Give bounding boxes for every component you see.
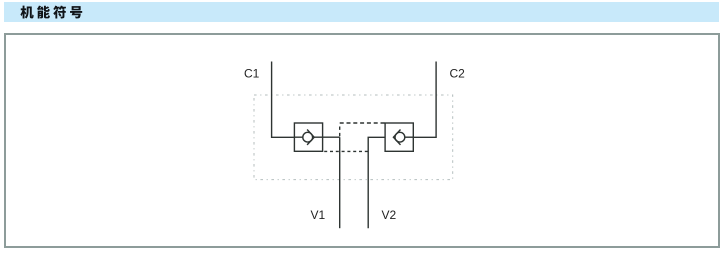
- check valve seat (right): [393, 130, 400, 145]
- title text 机能符号 (as paths): [20, 6, 82, 19]
- title glyph 机: [20, 6, 33, 19]
- title glyph 符: [53, 6, 66, 19]
- wire V1 port: [339, 137, 341, 228]
- pilot line (top dashed): [340, 122, 385, 124]
- check valve ball (right circle): [395, 132, 405, 142]
- check valve seat (left): [307, 130, 314, 145]
- wire V2 port: [368, 137, 385, 228]
- svg-text:C1: C1: [244, 67, 260, 81]
- valve envelope (outer dashed enclosure): [254, 95, 453, 180]
- svg-text:C2: C2: [450, 67, 466, 81]
- wire C1 port: [272, 62, 295, 138]
- wire C2 port: [413, 62, 436, 138]
- check valve ball (left circle): [303, 132, 313, 142]
- svg-text:V1: V1: [311, 208, 326, 222]
- check valve body (right square): [385, 123, 413, 151]
- wire inside left valve: [294, 136, 339, 138]
- wire inside right valve: [405, 136, 414, 138]
- title glyph 能: [37, 6, 50, 19]
- pilot line (bottom dashed): [324, 150, 368, 152]
- title bar: [4, 2, 719, 21]
- check valve body (left square): [294, 123, 322, 151]
- title glyph 号: [70, 6, 82, 18]
- pilot line (vertical dashed stub): [339, 127, 341, 138]
- svg-text:V2: V2: [382, 208, 397, 222]
